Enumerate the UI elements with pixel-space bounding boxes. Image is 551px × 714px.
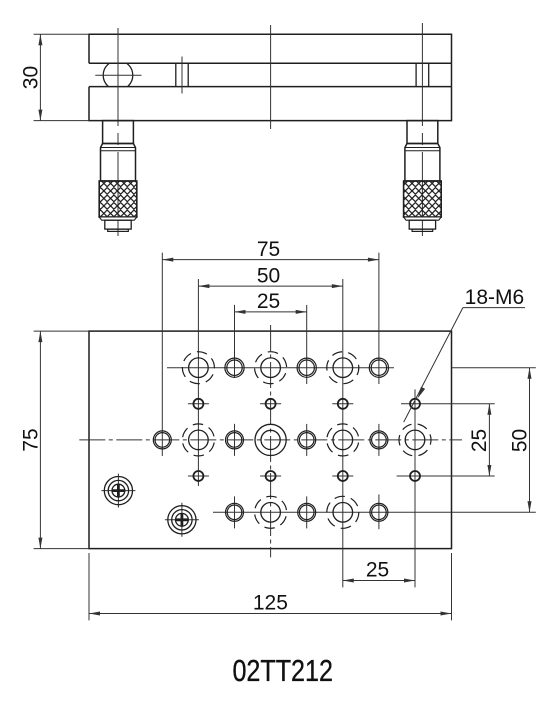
through hole row3 col5 [298, 431, 316, 449]
M6 tapped hole row1 col6 [320, 345, 365, 390]
row 4 hole ticks [188, 475, 353, 477]
top dimension 25 line [235, 310, 307, 314]
column 3 centreline / 25-dim extension [234, 305, 236, 529]
through hole row1 col3 [225, 358, 244, 377]
row 1 centreline [167, 367, 394, 369]
column 2 centreline / 50-dim extension [197, 279, 199, 486]
through hole row5 col7 [370, 503, 388, 521]
svg-text:02TT212: 02TT212 [232, 653, 333, 688]
through hole row3 col3 [226, 431, 244, 449]
bottom plate (side view) [89, 87, 452, 121]
svg-text:75: 75 [20, 428, 43, 451]
top dimension 75 text [257, 238, 280, 261]
dimension 30 extension lines [34, 34, 89, 120]
small hole row4 col8 [410, 471, 420, 481]
right dimension 50 line [528, 368, 532, 513]
svg-text:25: 25 [366, 559, 389, 582]
left pin centreline [181, 57, 183, 94]
column 1 centreline / 75-dim extension [161, 253, 163, 456]
left dimension 75 text [20, 428, 43, 451]
M6 tapped hole row1 col2 [177, 346, 220, 389]
mounting plate outline (top view) [89, 331, 452, 548]
row 2 hole ticks [188, 403, 353, 405]
label 18-M6 leader [404, 308, 525, 423]
M6 tapped hole row5 col6 [321, 490, 365, 534]
svg-text:75: 75 [257, 238, 280, 261]
column 7 centreline / 75-dim extension [378, 253, 380, 530]
label 18-M6 text [465, 286, 525, 309]
through hole row1 col5 [297, 358, 316, 377]
left micrometer head [99, 121, 137, 232]
column 6 centreline / 50-dim + bottom 25-dim extension [342, 279, 344, 587]
bottom dimension 25 line [343, 579, 415, 583]
dimension 125 extension lines [89, 553, 452, 620]
central pivot hole [255, 424, 286, 455]
through hole row3 col1 [153, 431, 171, 449]
ball horizontal centreline [95, 74, 141, 76]
small hole row2 col4 [266, 399, 276, 409]
row 2 col 8 centreline + 25-dim extension [401, 403, 495, 405]
dimension 30 line [38, 34, 42, 120]
M6 tapped hole row3 col6 [322, 419, 363, 460]
right micrometer centreline [421, 23, 423, 236]
column 5 centreline / 25-dim extension [306, 305, 308, 529]
right-side gap closure edge [451, 63, 453, 86]
column 4 centre axis [270, 325, 272, 557]
row 3 centreline (horizontal axis) [79, 439, 462, 441]
M6 tapped hole row5 col4 [251, 493, 290, 532]
left dimension 75 extension lines [34, 331, 89, 548]
top plate (side view) [89, 34, 452, 63]
title 02TT212 [232, 653, 333, 688]
svg-text:50: 50 [508, 429, 531, 452]
row 4 col 8 centreline + 25-dim extension [397, 475, 495, 477]
through hole row5 col3 [226, 503, 244, 521]
through hole row1 col7 [369, 358, 388, 377]
right dimension 50 text [508, 429, 531, 452]
svg-text:125: 125 [253, 592, 288, 615]
small hole row2 col2 [193, 399, 203, 409]
small hole row2 col8 [410, 399, 420, 409]
svg-text:25: 25 [468, 429, 491, 452]
M6 tapped hole row1 col4 [252, 349, 289, 386]
row 5 centreline + 50-dim extension [213, 511, 536, 513]
M6 tapped hole row3 col2 [180, 421, 217, 458]
svg-text:18-M6: 18-M6 [465, 286, 525, 309]
stage centre axis (side view) [270, 25, 272, 129]
M6 tapped hole row3 col8 [392, 417, 437, 462]
small hole row4 col2 [193, 471, 203, 481]
svg-text:25: 25 [257, 290, 280, 313]
through hole row5 col5 [298, 503, 316, 521]
small hole row4 col4 [266, 471, 276, 481]
top dimension 50 text [257, 264, 280, 287]
left adjuster pin [176, 63, 188, 86]
left micrometer centreline [117, 28, 119, 236]
phillips screw lower-left A [101, 474, 135, 508]
right dimension 25 text [468, 429, 491, 452]
dimension 125 text [253, 592, 288, 615]
top dimension 75 line [162, 258, 379, 262]
top dimension 25 text [257, 290, 280, 313]
top dimension 50 line [198, 284, 342, 288]
ball bearing (clipped circle) [103, 61, 133, 91]
left dimension 75 line [38, 331, 42, 548]
dimension 125 line [89, 612, 452, 616]
bottom dimension 25 text [366, 559, 389, 582]
small hole row4 col6 [338, 471, 348, 481]
dimension 30 text [19, 66, 42, 89]
small hole row2 col6 [338, 399, 348, 409]
right dimension 25 line [487, 404, 491, 476]
column 8 centreline / bottom 25-dim extension [414, 389, 416, 587]
svg-text:50: 50 [257, 264, 280, 287]
row 1 upper 50-dim extension [452, 367, 536, 369]
right adjuster pin [416, 63, 429, 86]
right micrometer head [404, 121, 442, 232]
svg-text:30: 30 [19, 66, 42, 89]
through hole row3 col7 [370, 431, 388, 449]
phillips screw lower-left B [165, 503, 199, 537]
